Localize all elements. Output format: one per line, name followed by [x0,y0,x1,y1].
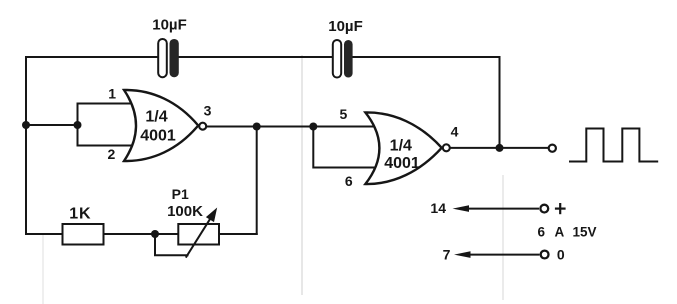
wire: gate2 output run [451,147,548,149]
wire: bottom rail right (P1 to vertical) [219,233,257,235]
label: plus sign [555,203,566,214]
svg-text:5: 5 [340,106,348,122]
junction: timing node [253,123,261,131]
nor gate U1a output bubble [199,123,206,130]
svg-text:14: 14 [430,200,446,216]
square wave output symbol [569,129,658,162]
junction: left rail node [22,121,30,129]
junction: input bar node [74,121,82,129]
wire: bottom rail middle (R1 to P1) [104,233,179,235]
svg-text:2: 2 [108,146,116,162]
arrow: supply to pin 7 shaft [468,254,540,256]
junction: wiper node [151,230,159,238]
wire: vertical branch to pin6 [313,127,375,168]
svg-text:100K: 100K [167,203,203,220]
capacitor C1 (10uF) left plate [158,39,167,77]
output terminal (open circle) [549,145,556,152]
arrow: supply to pin 14 shaft [466,208,539,210]
svg-text:4: 4 [451,123,459,139]
svg-text:0: 0 [557,246,565,262]
wire: top rail left segment [26,56,158,58]
svg-text:7: 7 [443,247,451,263]
nor gate U1b body [365,112,441,184]
wire: feed to gate1 input bar [26,124,78,126]
wire: right vertical drop to output node [499,57,501,148]
svg-text:1K: 1K [69,205,91,222]
capacitor C2 (10uF) right plate (solid) [344,40,353,78]
wire: wiper connection run [155,234,188,255]
svg-text:1/4: 1/4 [390,137,412,154]
wire: gate1 output to gate2 pin5 [207,126,375,128]
arrow: supply to pin 14 head [453,205,470,212]
svg-text:15V: 15V [573,225,597,240]
svg-text:6: 6 [538,225,546,240]
svg-text:3: 3 [204,103,212,119]
capacitor C2 (10uF) left plate [333,40,341,78]
nor gate U1a body [124,90,198,161]
capacitor C1 (10uF) right plate (solid) [170,39,179,77]
wire: top rail middle segment (C1 to C2) [179,56,333,58]
svg-text:P1: P1 [172,186,189,202]
wire: timing node vertical to potentiometer [256,127,258,235]
potentiometer P1 wiper arrow head [207,209,216,221]
svg-text:6: 6 [345,173,353,189]
wire: bottom rail left (to R1) [26,233,63,235]
wire: gate1 pin1 stub [78,103,133,105]
svg-text:A: A [555,225,565,240]
svg-text:4001: 4001 [384,155,420,172]
svg-text:1: 1 [108,85,116,101]
junction: feedback/output node [496,144,504,152]
wire: top rail right segment (C2 to drop) [353,56,500,58]
terminal: V+ (open circle) [540,205,548,213]
junction: gate2 input branch node [309,123,317,131]
wire: gate1 pin2 stub [78,145,133,147]
wire: left vertical rail [25,57,27,234]
svg-text:10µF: 10µF [328,18,363,35]
svg-text:10µF: 10µF [152,17,187,34]
potentiometer P1 (100K) body [178,224,219,245]
arrow: supply to pin 7 head [454,251,471,258]
wire: gate1 input bar [77,104,79,146]
svg-text:4001: 4001 [140,128,176,145]
svg-text:1/4: 1/4 [145,108,167,125]
nor gate U1b output bubble [443,144,450,151]
resistor R1 (1K) body [63,224,104,245]
potentiometer P1 wiper arrow shaft [186,218,211,258]
terminal: 0V (open circle) [541,251,549,259]
